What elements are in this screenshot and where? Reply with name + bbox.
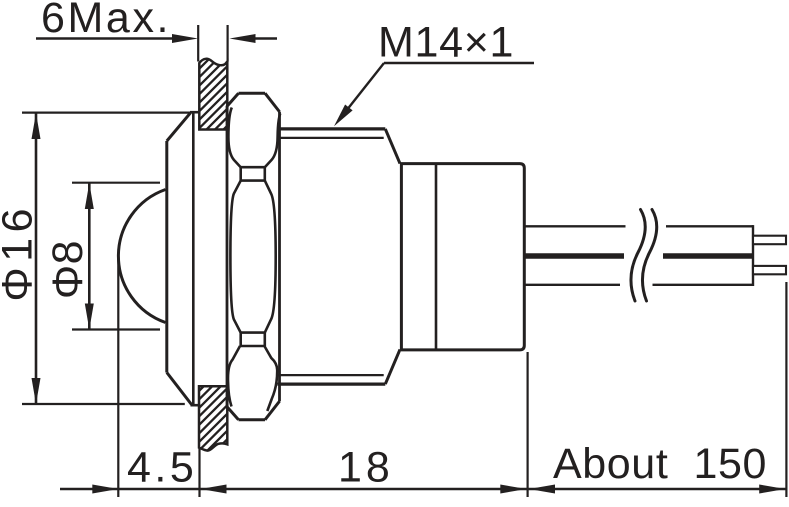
- svg-text:4.5: 4.5: [127, 443, 197, 491]
- svg-text:Φ16: Φ16: [0, 203, 41, 302]
- svg-text:About 150: About 150: [553, 440, 767, 488]
- svg-text:Φ8: Φ8: [44, 240, 92, 299]
- svg-text:6Max.: 6Max.: [41, 0, 171, 42]
- svg-text:18: 18: [338, 443, 394, 491]
- svg-text:M14×1: M14×1: [378, 18, 514, 66]
